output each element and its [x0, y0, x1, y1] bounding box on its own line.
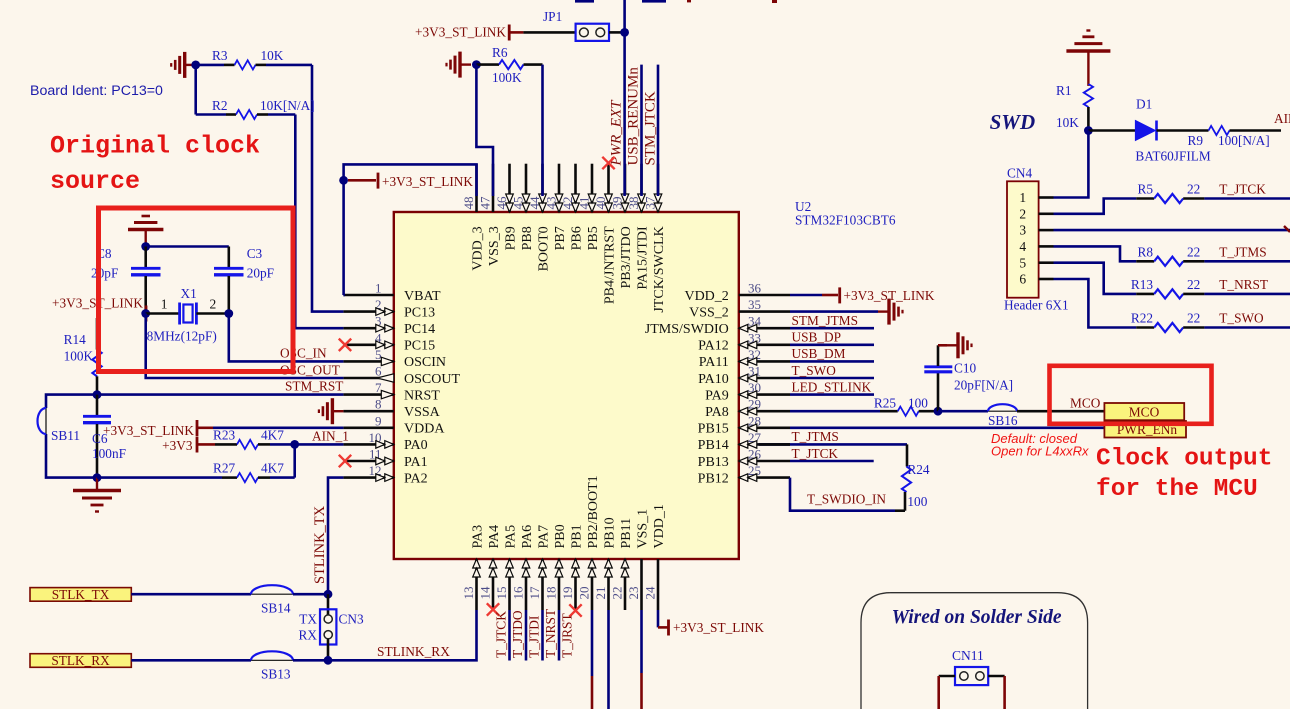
arrow pin top 45 — [522, 194, 530, 212]
arrow pin right row 25 — [739, 474, 757, 482]
diode D1 — [1088, 129, 1135, 132]
resistor R27 — [97, 476, 222, 479]
arrow pin bottom 19 — [572, 559, 580, 577]
resistor R14 — [96, 318, 99, 350]
svg-text:100[N/A]: 100[N/A] — [1218, 133, 1270, 148]
no-connect X on PA1 — [339, 455, 351, 467]
wire riser pin38 PA15/JTDI — [640, 65, 643, 196]
svg-text:R13: R13 — [1131, 277, 1154, 292]
svg-text:Open for L4xxRx: Open for L4xxRx — [991, 444, 1089, 459]
junction R14/NRST — [93, 390, 102, 399]
arrow pin top 40 — [605, 194, 613, 212]
svg-text:PB13: PB13 — [698, 455, 729, 470]
wire CN3 pin2 to RX junction — [327, 639, 330, 660]
pin 43 PB7 stub — [558, 164, 561, 212]
crystal X1 — [146, 312, 180, 315]
wire gnd node to C3 top — [146, 245, 229, 248]
resistor R22 — [1136, 326, 1154, 329]
pin 24 VDD_1 stub — [657, 559, 660, 610]
svg-text:PB14: PB14 — [698, 438, 729, 453]
CN4 pin 1 stub — [1039, 196, 1054, 199]
svg-text:VBAT: VBAT — [404, 289, 441, 304]
wire to JP1 — [523, 31, 575, 34]
arrow pin right row 32 — [739, 358, 757, 366]
jumper JP1 — [576, 24, 609, 41]
svg-text:1: 1 — [1019, 190, 1026, 205]
svg-text:22: 22 — [1187, 244, 1200, 259]
svg-text:4: 4 — [1019, 239, 1026, 254]
CN11 right wire — [988, 675, 1004, 678]
svg-text:PC15: PC15 — [404, 339, 435, 354]
wire R2 to PC14 — [295, 115, 343, 329]
no-connect X pin19 — [569, 604, 581, 616]
svg-text:35: 35 — [748, 297, 761, 312]
svg-text:T_SWDIO_IN: T_SWDIO_IN — [807, 492, 886, 507]
svg-text:STLINK_TX: STLINK_TX — [312, 505, 328, 584]
wire STM_JTMS — [790, 327, 874, 330]
svg-text:T_JTMS: T_JTMS — [792, 429, 839, 444]
wire USB_DP — [790, 343, 874, 346]
arrow pin right row 34 — [739, 324, 757, 332]
svg-text:PB8: PB8 — [520, 226, 535, 250]
junction VBAT riser — [339, 176, 348, 185]
svg-text:R25: R25 — [874, 395, 897, 410]
svg-text:VDD_2: VDD_2 — [684, 289, 728, 304]
pin 45 PB8 stub — [525, 164, 528, 212]
ground at VSSA (rotated) — [319, 398, 344, 424]
cropped text fragment top 3 — [687, 0, 691, 2]
arrow pin top 37 — [654, 194, 662, 212]
svg-text:PA0: PA0 — [404, 438, 428, 453]
svg-text:20pF[N/A]: 20pF[N/A] — [954, 378, 1013, 393]
svg-text:USB_DP: USB_DP — [792, 330, 842, 345]
arrow pin top 39 — [621, 194, 629, 212]
svg-text:R9: R9 — [1188, 133, 1204, 148]
wire T_JTMS PB14 to R24 — [759, 443, 907, 446]
svg-text:Board Ident: PC13=0: Board Ident: PC13=0 — [30, 83, 163, 99]
resistor R9 — [1209, 126, 1230, 135]
svg-text:T_SWO: T_SWO — [792, 363, 837, 378]
svg-text:22: 22 — [1187, 277, 1200, 292]
wire CN4 pin3 — [1054, 229, 1290, 232]
svg-text:20pF: 20pF — [91, 266, 118, 281]
capacitor C6 — [96, 395, 99, 415]
arrow pin right row 29 — [739, 407, 757, 415]
arrow pin top 41 — [588, 194, 596, 212]
svg-text:22: 22 — [610, 587, 625, 600]
svg-text:D1: D1 — [1136, 97, 1152, 112]
svg-text:100K: 100K — [492, 70, 522, 85]
arrow NRST — [381, 390, 394, 398]
ground at R3 (rotated) — [171, 52, 196, 78]
svg-text:100nF: 100nF — [92, 446, 126, 461]
CN11 left wire — [939, 675, 955, 678]
svg-text:T_JTCK: T_JTCK — [792, 446, 839, 461]
svg-text:1: 1 — [375, 281, 382, 296]
svg-text:JTCK/SWCLK: JTCK/SWCLK — [652, 226, 667, 312]
pin 18 PB0 stub — [558, 559, 561, 610]
svg-text:Original clock: Original clock — [50, 132, 260, 161]
arrow pin bottom 16 — [522, 559, 530, 577]
svg-text:source: source — [50, 167, 140, 196]
svg-text:C3: C3 — [247, 246, 263, 261]
connector CN4 body — [1007, 181, 1039, 297]
svg-text:PB2/BOOT1: PB2/BOOT1 — [586, 475, 601, 548]
connector CN11 — [955, 667, 988, 685]
svg-text:PB1: PB1 — [569, 524, 584, 548]
svg-text:VDD_1: VDD_1 — [652, 504, 667, 548]
svg-text:VSSA: VSSA — [404, 405, 441, 420]
svg-text:CN4: CN4 — [1007, 166, 1032, 181]
resistor R13 — [1136, 293, 1154, 296]
svg-text:PC13: PC13 — [404, 305, 435, 320]
pin 29 PA8 stub — [739, 410, 790, 413]
earth ground above crystal (inverted) — [128, 216, 163, 247]
svg-text:BOOT0: BOOT0 — [536, 226, 551, 271]
wire pin24 VDD_1 to +3V3_ST_LINK — [657, 610, 660, 627]
wire D1 node to CN4 pin1 — [1054, 131, 1089, 198]
svg-text:PB15: PB15 — [698, 422, 729, 437]
svg-text:48: 48 — [461, 197, 476, 210]
resistor R1 — [1084, 84, 1093, 107]
svg-text:T_JTMS: T_JTMS — [1219, 244, 1266, 259]
svg-text:STLK_TX: STLK_TX — [52, 587, 110, 602]
wire pin20 PB2/BOOT1 down — [591, 610, 594, 676]
pin 41 PB5 stub — [591, 164, 594, 212]
wire JP1 to pin39 riser — [609, 31, 625, 34]
resistor R2 — [194, 65, 197, 115]
solder bridge SB13 — [251, 659, 293, 661]
wire R6 ground to VSS_3 pin47 — [476, 65, 493, 196]
svg-text:NRST: NRST — [404, 388, 440, 403]
pin 23 VSS_1 stub — [640, 559, 643, 610]
svg-text:4K7: 4K7 — [261, 461, 284, 476]
svg-text:PA12: PA12 — [698, 339, 729, 354]
svg-text:PC14: PC14 — [404, 322, 435, 337]
junction C8 top — [141, 242, 150, 251]
arrow pin right row 33 — [739, 341, 757, 349]
svg-text:MCO: MCO — [1129, 405, 1160, 420]
svg-text:PWR_EXT: PWR_EXT — [609, 99, 625, 167]
Wired on Solder Side frame — [861, 593, 1088, 709]
pin 40 PB4/JNTRST stub — [607, 164, 610, 212]
svg-text:STM_JTCK: STM_JTCK — [643, 91, 659, 165]
wire R3 to PC13 — [312, 65, 343, 312]
svg-text:LED_STLINK: LED_STLINK — [792, 379, 872, 394]
no-connect X on PC15 — [339, 339, 351, 351]
capacitor C8 — [144, 247, 147, 268]
svg-text:PA2: PA2 — [404, 471, 428, 486]
svg-text:T_JRST: T_JRST — [559, 613, 574, 658]
svg-text:for the MCU: for the MCU — [1096, 476, 1258, 503]
svg-text:T_JTDI: T_JTDI — [526, 616, 541, 658]
svg-text:PA9: PA9 — [705, 388, 729, 403]
wire SB14 to junction — [293, 593, 328, 596]
port STLK_TX — [30, 588, 131, 602]
svg-text:R27: R27 — [213, 461, 236, 476]
power +3V3_ST_LINK at JP1 — [508, 25, 511, 41]
CN4 pin 6 stub — [1039, 278, 1054, 281]
connector CN3 — [320, 609, 336, 644]
junction R1/D1/CN4 — [1084, 126, 1093, 135]
svg-text:OSCOUT: OSCOUT — [404, 372, 460, 387]
svg-text:10K[N/A]: 10K[N/A] — [260, 98, 315, 113]
pin 19 PB1 stub — [574, 559, 577, 610]
svg-text:Header 6X1: Header 6X1 — [1004, 298, 1069, 313]
no-connect X pin14 — [487, 603, 499, 615]
svg-text:R14: R14 — [64, 332, 87, 347]
cropped text fragment top 1 — [575, 0, 594, 3]
pin 10 PA0 stub — [343, 443, 393, 446]
svg-text:STM_JTMS: STM_JTMS — [792, 313, 859, 328]
svg-text:CN3: CN3 — [339, 612, 364, 627]
svg-text:PB4/JNTRST: PB4/JNTRST — [602, 226, 617, 304]
pin 15 PA5 stub — [508, 559, 511, 610]
solder bridge SB14 — [251, 593, 293, 595]
arrow pin bottom 21 — [605, 559, 613, 577]
svg-text:22: 22 — [1187, 311, 1200, 326]
svg-text:VSS_3: VSS_3 — [487, 226, 502, 266]
junction PA0/AIN_1 — [290, 440, 299, 449]
svg-text:PB7: PB7 — [553, 226, 568, 250]
pin 42 PB6 stub — [574, 164, 577, 212]
svg-text:17: 17 — [527, 586, 542, 600]
wire T_SWDIO_IN PB12 loop to R24 — [790, 478, 895, 511]
svg-text:PB6: PB6 — [569, 226, 584, 250]
svg-text:PA8: PA8 — [705, 405, 729, 420]
svg-text:PB9: PB9 — [503, 226, 518, 250]
pin 1 VBAT stub — [343, 294, 393, 297]
svg-text:SB13: SB13 — [261, 667, 291, 682]
pin 36 VDD_2 stub — [739, 294, 790, 297]
wire LED_STLINK — [790, 393, 874, 396]
pin 20 PB2/BOOT1 stub — [591, 559, 594, 610]
MCU U2 STM32F103CBT6 body — [394, 212, 739, 559]
pin 16 PA6 stub — [525, 559, 528, 610]
svg-text:PA15/JTDI: PA15/JTDI — [635, 226, 650, 290]
junction R3/R2 — [191, 61, 200, 70]
svg-text:47: 47 — [478, 196, 493, 210]
wire T_SWO — [790, 377, 874, 380]
wire to VDD_3 pin48 — [344, 164, 477, 196]
arrow pin top 46 — [506, 194, 514, 212]
resistor R24 — [902, 467, 911, 493]
resistor R3 — [196, 64, 224, 67]
svg-text:10K: 10K — [1056, 115, 1079, 130]
wire X1 pin1 to OSCOUT — [146, 314, 344, 379]
arrow pin top 38 — [638, 194, 646, 212]
wire CN4 pin4 to R8 — [1054, 246, 1137, 261]
svg-text:STLINK_RX: STLINK_RX — [377, 644, 450, 659]
pin 32 PA11 stub — [739, 360, 790, 363]
svg-text:Wired on Solder Side: Wired on Solder Side — [892, 607, 1062, 628]
wire VDDA row — [213, 426, 343, 429]
svg-text:1: 1 — [161, 297, 168, 312]
pin 8 VSSA stub — [343, 410, 393, 413]
arrow pin bottom 15 — [506, 559, 514, 577]
pin 48 VDD_3 stub — [475, 164, 478, 212]
svg-text:18: 18 — [544, 587, 559, 600]
arrow OSCIN — [381, 357, 394, 365]
wire T_JTCK PB13 — [790, 460, 874, 463]
svg-text:24: 24 — [643, 586, 658, 600]
svg-text:VDD_3: VDD_3 — [470, 226, 485, 270]
svg-text:USB_RENUMn: USB_RENUMn — [626, 67, 642, 166]
svg-text:STLK_RX: STLK_RX — [51, 653, 110, 668]
arrow pin right row 26 — [739, 457, 757, 465]
power +3V3_ST_LINK at VDD_2 — [790, 294, 822, 297]
svg-text:+3V3_ST_LINK: +3V3_ST_LINK — [415, 25, 506, 40]
svg-text:PA7: PA7 — [536, 525, 551, 549]
wire STLINK_RX to pin13 — [328, 610, 477, 660]
arrow pin bottom 14 — [489, 559, 497, 577]
arrow pin top 44 — [539, 194, 547, 212]
svg-text:VSS_2: VSS_2 — [689, 305, 729, 320]
wire X1 pin2 to OSCIN — [229, 314, 344, 362]
solder bridge SB16 — [938, 410, 988, 413]
svg-text:T_JTCK: T_JTCK — [1219, 182, 1266, 197]
wire USB_DM — [790, 360, 874, 363]
pin 12 PA2 stub — [343, 476, 393, 479]
svg-text:R2: R2 — [212, 98, 228, 113]
svg-text:+3V3_ST_LINK: +3V3_ST_LINK — [382, 174, 473, 189]
svg-text:SB14: SB14 — [261, 601, 291, 616]
annotation red box original clock source — [99, 208, 294, 372]
pin 25 PB12 stub — [739, 476, 790, 479]
svg-text:PA6: PA6 — [520, 525, 535, 549]
junction PA8/C10 — [934, 407, 943, 416]
arrow pin right row 27 — [739, 441, 757, 449]
wire T_NRST down pin18 — [558, 610, 561, 661]
wire R6 to BOOT0 pin44 — [541, 65, 544, 196]
arrow pin left row 10 — [376, 441, 394, 449]
pin 34 JTMS/SWDIO stub — [739, 327, 790, 330]
junction R6 — [472, 60, 481, 69]
svg-text:9: 9 — [375, 413, 382, 428]
svg-text:T_NRST: T_NRST — [1219, 277, 1268, 292]
svg-text:20: 20 — [577, 587, 592, 600]
cropped text fragment top 2 — [642, 0, 666, 3]
junction JP1/pin39 — [620, 28, 629, 37]
pin 3 PC14 stub — [343, 327, 393, 330]
svg-text:SWD: SWD — [990, 110, 1036, 134]
svg-text:8: 8 — [375, 397, 382, 412]
svg-text:R1: R1 — [1056, 83, 1072, 98]
earth ground below C6 — [73, 478, 121, 512]
wire T_JTDO down pin16 — [525, 610, 528, 661]
ground at C10 (rotated) — [938, 344, 947, 347]
arrow pin left row 4 — [376, 341, 394, 349]
svg-text:T_JTDO: T_JTDO — [510, 610, 525, 658]
svg-text:MCO: MCO — [1070, 395, 1101, 410]
svg-text:PA3: PA3 — [470, 525, 485, 549]
svg-text:R5: R5 — [1137, 182, 1153, 197]
resistor R8 — [1136, 260, 1154, 263]
wire CN4 pin2 to R5 — [1054, 199, 1137, 214]
pin 47 VSS_3 stub — [492, 164, 495, 212]
junction TX/CN3 — [324, 590, 333, 599]
pin 38 PA15/JTDI stub — [640, 164, 643, 212]
pin 26 PB13 stub — [739, 460, 790, 463]
svg-text:PA11: PA11 — [699, 355, 729, 370]
wire STLINK_TX from PA2 — [328, 478, 343, 595]
svg-text:PA10: PA10 — [698, 372, 729, 387]
arrow pin left row 2 — [376, 308, 394, 316]
arrow pin bottom 22 — [621, 559, 629, 577]
pin 17 PA7 stub — [541, 559, 544, 610]
wire CN4 pin5 to R13 — [1054, 263, 1137, 294]
pin 30 PA9 stub — [739, 393, 790, 396]
wire STLK_TX to SB14 — [131, 593, 251, 596]
svg-text:10K: 10K — [261, 48, 284, 63]
svg-text:22: 22 — [1187, 182, 1200, 197]
svg-text:VDDA: VDDA — [404, 422, 445, 437]
pin 22 PB11 stub — [624, 559, 627, 610]
wire pin21 PB10 down — [607, 610, 610, 709]
wire NRST row — [97, 393, 343, 396]
arrow pin top 43 — [555, 194, 563, 212]
no-connect X on pin40 — [602, 157, 614, 169]
arrow pin bottom 17 — [539, 559, 547, 577]
ground at VSS_2 (rotated) — [790, 310, 878, 313]
svg-text:PB3/JTDO: PB3/JTDO — [619, 226, 634, 288]
svg-text:JP1: JP1 — [543, 9, 562, 24]
svg-text:OSC_IN: OSC_IN — [280, 346, 327, 361]
pin 7 NRST stub — [343, 393, 393, 396]
pin 35 VSS_2 stub — [739, 310, 790, 313]
svg-text:USB_DM: USB_DM — [792, 346, 846, 361]
arrow OSCOUT — [377, 374, 394, 382]
wire STLK_RX to SB13 — [131, 659, 251, 662]
cropped text fragment top 4 — [772, 0, 777, 3]
wire CN4 pin6 to R22 — [1054, 279, 1137, 328]
junction X1 pin1 — [141, 309, 150, 318]
svg-text:AIN_1: AIN_1 — [312, 429, 349, 444]
svg-text:PB0: PB0 — [553, 524, 568, 548]
pin 33 PA12 stub — [739, 343, 790, 346]
wire PB15 to PWR_ENn port — [790, 426, 1104, 429]
junction RX/CN3 — [324, 656, 333, 665]
svg-text:23: 23 — [626, 587, 641, 600]
svg-text:JTMS/SWDIO: JTMS/SWDIO — [645, 322, 729, 337]
svg-text:PB10: PB10 — [602, 517, 617, 548]
svg-text:21: 21 — [593, 587, 608, 600]
junction C6 bottom — [93, 473, 102, 482]
arrow pin left row 3 — [376, 324, 394, 332]
resistor R5 — [1136, 197, 1154, 200]
CN4 pin 3 stub — [1039, 229, 1054, 232]
port STLK_RX — [30, 654, 131, 668]
pin 46 PB9 stub — [508, 164, 511, 212]
pin 14 PA4 stub — [492, 559, 495, 610]
svg-text:PA5: PA5 — [503, 525, 518, 549]
pin 9 VDDA stub — [343, 426, 393, 429]
arrow pin bottom 13 — [473, 559, 481, 577]
svg-text:100K: 100K — [64, 349, 94, 364]
svg-text:STM32F103CBT6: STM32F103CBT6 — [795, 213, 896, 228]
svg-text:+3V3_ST_LINK: +3V3_ST_LINK — [673, 620, 764, 635]
resistor R23 — [215, 443, 237, 446]
svg-text:STM_RST: STM_RST — [285, 379, 343, 394]
annotation red box clock output — [1050, 366, 1212, 424]
svg-text:CN11: CN11 — [952, 648, 984, 663]
svg-text:C10: C10 — [954, 361, 977, 376]
svg-text:2: 2 — [210, 297, 217, 312]
CN4 pin 5 stub — [1039, 261, 1054, 264]
pin 27 PB14 stub — [739, 443, 790, 446]
arrow pin right row 28 — [739, 424, 757, 432]
wire T_JTDI down pin17 — [541, 610, 544, 661]
